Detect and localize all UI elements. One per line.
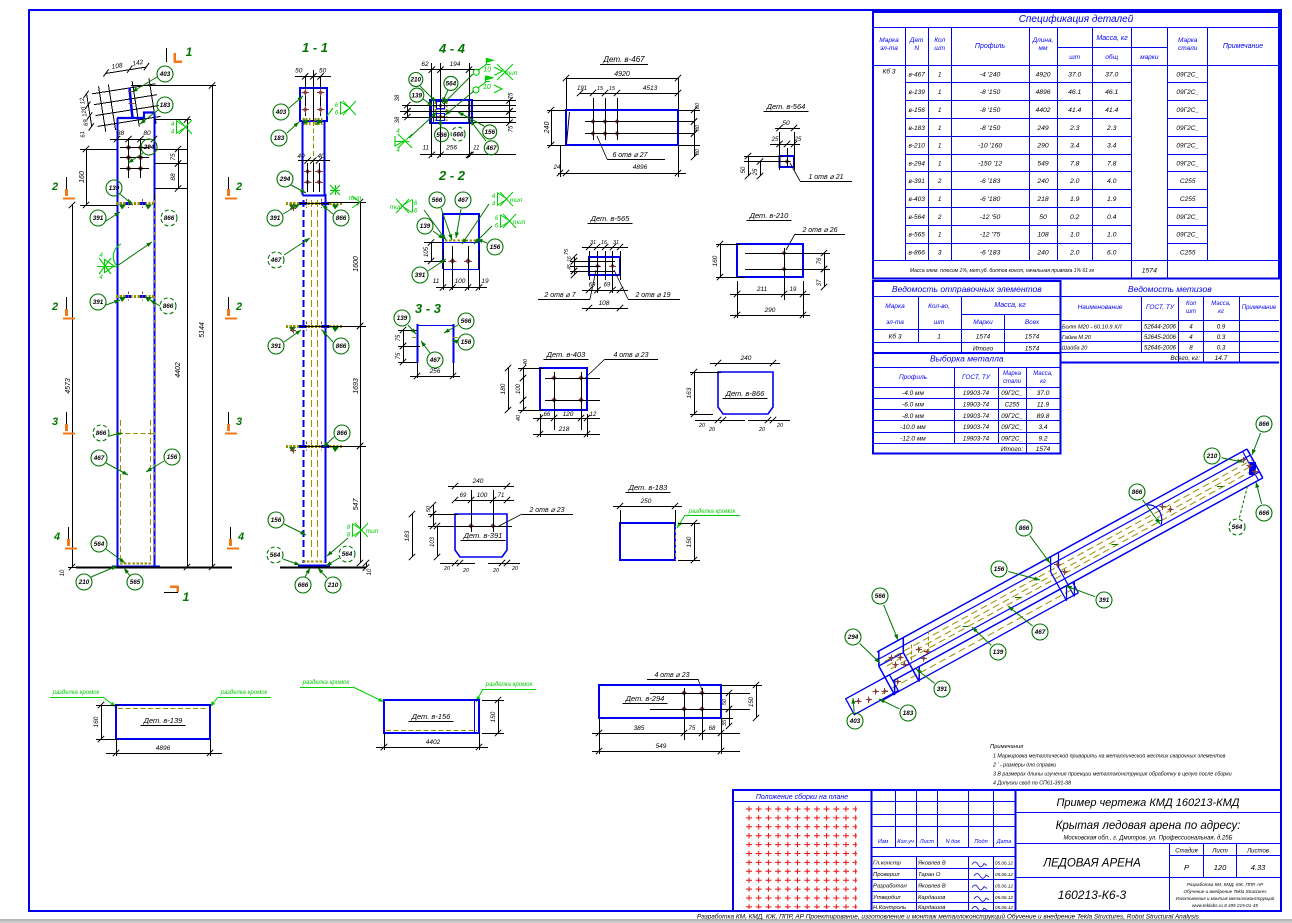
svg-text:1693: 1693 — [353, 378, 360, 394]
svg-text:09Г2С_: 09Г2С_ — [1176, 214, 1199, 221]
svg-text:52645-2006: 52645-2006 — [1144, 335, 1177, 341]
svg-text:-6 ′183: -6 ′183 — [980, 249, 1001, 256]
svg-text:50: 50 — [722, 698, 728, 705]
svg-text:3.4: 3.4 — [1107, 143, 1117, 150]
svg-text:547: 547 — [353, 498, 360, 511]
svg-text:46.1: 46.1 — [1068, 89, 1081, 96]
svg-text:20: 20 — [462, 568, 470, 574]
svg-text:Кол: Кол — [1186, 301, 1197, 307]
svg-text:05.06.12: 05.06.12 — [995, 905, 1013, 910]
svg-text:50: 50 — [1039, 214, 1047, 221]
svg-text:10: 10 — [60, 569, 66, 576]
svg-text:1: 1 — [938, 89, 942, 96]
svg-text:Профиль: Профиль — [899, 374, 928, 381]
svg-text:Изготовление и монтаж металлок: Изготовление и монтаж металлоконструкций — [1176, 896, 1275, 901]
svg-text:50: 50 — [426, 505, 432, 512]
svg-text:294: 294 — [279, 176, 291, 183]
svg-text:кг: кг — [1040, 379, 1046, 385]
svg-text:11: 11 — [473, 146, 479, 152]
svg-text:866: 866 — [164, 215, 175, 222]
svg-text:1: 1 — [938, 160, 942, 167]
svg-text:41.4: 41.4 — [1068, 107, 1081, 114]
svg-text:11.9: 11.9 — [1037, 402, 1050, 409]
svg-text:62: 62 — [421, 61, 429, 68]
svg-text:0.2: 0.2 — [1070, 214, 1080, 221]
svg-text:разделка кромок: разделка кромок — [485, 682, 534, 688]
svg-text:2.3: 2.3 — [1106, 125, 1117, 132]
svg-text:в-139: в-139 — [908, 89, 925, 96]
svg-text:6.0: 6.0 — [1107, 249, 1117, 256]
svg-text:37.0: 37.0 — [1068, 71, 1081, 78]
svg-text:1.0: 1.0 — [1070, 232, 1080, 239]
svg-text:-12.0 мм: -12.0 мм — [900, 435, 926, 442]
svg-text:-150 ′12: -150 ′12 — [978, 160, 1003, 167]
svg-text:в-866: в-866 — [908, 249, 925, 256]
svg-text:1574: 1574 — [1036, 446, 1051, 453]
svg-text:С255: С255 — [1180, 249, 1196, 256]
svg-text:80: 80 — [695, 102, 701, 109]
svg-text:19903-74: 19903-74 — [963, 402, 990, 409]
svg-text:4920: 4920 — [614, 71, 630, 78]
svg-text:Яковлев В: Яковлев В — [917, 861, 946, 867]
svg-text:20: 20 — [492, 568, 500, 574]
svg-text:в-391: в-391 — [908, 178, 925, 185]
svg-text:210: 210 — [327, 582, 339, 589]
svg-text:80: 80 — [695, 124, 701, 131]
svg-text:75: 75 — [509, 92, 515, 99]
svg-text:2 отв ⌀ 26: 2 отв ⌀ 26 — [801, 227, 837, 234]
svg-text:403: 403 — [849, 718, 861, 725]
svg-text:Профиль: Профиль — [975, 43, 1006, 50]
svg-text:0.3: 0.3 — [1217, 334, 1226, 341]
svg-text:24: 24 — [553, 165, 561, 171]
svg-text:4 отв ⌀ 23: 4 отв ⌀ 23 — [613, 352, 648, 359]
svg-text:05.06.12: 05.06.12 — [995, 872, 1013, 877]
svg-text:Пример чертежа КМД 160213-КМД: Пример чертежа КМД 160213-КМД — [1056, 797, 1239, 809]
svg-text:тип: тип — [390, 204, 403, 211]
svg-text:1: 1 — [938, 232, 942, 239]
svg-text:75: 75 — [564, 248, 570, 255]
svg-text:218: 218 — [1036, 196, 1049, 203]
svg-text:4 Допуски свод по СП61-391-98: 4 Допуски свод по СП61-391-98 — [993, 781, 1071, 787]
svg-text:в-294: в-294 — [908, 160, 925, 167]
svg-text:Утвердил: Утвердил — [872, 895, 901, 901]
svg-text:100: 100 — [455, 278, 466, 285]
svg-text:Московская обл., г. Дмитров,: Московская обл., г. Дмитров, ул. Професс… — [1063, 836, 1232, 842]
svg-text:Наименование: Наименование — [1078, 304, 1123, 311]
svg-text:68: 68 — [709, 726, 716, 732]
svg-text:Выборка металла: Выборка металла — [930, 354, 1004, 364]
svg-text:Марка: Марка — [879, 37, 899, 44]
svg-text:4: 4 — [237, 531, 244, 543]
svg-text:-6 ′183: -6 ′183 — [980, 178, 1001, 185]
svg-text:31: 31 — [613, 240, 619, 246]
svg-text:3: 3 — [938, 249, 942, 256]
svg-text:76: 76 — [817, 257, 823, 264]
svg-text:5144: 5144 — [199, 322, 206, 338]
svg-text:866: 866 — [1259, 421, 1270, 428]
svg-text:Спецификация деталей: Спецификация деталей — [1019, 13, 1134, 25]
svg-text:290: 290 — [764, 307, 776, 314]
svg-text:1: 1 — [938, 196, 942, 203]
svg-text:-6.0 мм: -6.0 мм — [902, 402, 924, 409]
svg-text:Дет: Дет — [909, 37, 924, 44]
svg-text:71: 71 — [498, 493, 505, 499]
svg-text:Лист: Лист — [1211, 849, 1227, 855]
svg-text:249: 249 — [1036, 125, 1049, 132]
svg-text:в-467: в-467 — [908, 71, 925, 78]
svg-text:разделка кромок: разделка кромок — [220, 690, 269, 696]
svg-text:183: 183 — [160, 102, 171, 109]
svg-text:46.1: 46.1 — [1105, 89, 1118, 96]
svg-text:1: 1 — [938, 71, 942, 78]
svg-text:9.2: 9.2 — [1038, 435, 1047, 442]
svg-text:09Г2С_: 09Г2С_ — [1176, 143, 1199, 150]
svg-text:183: 183 — [274, 135, 285, 142]
svg-text:Марка: Марка — [1178, 37, 1198, 44]
svg-text:Разработка КМ, КМД, КЖ, ППР, А: Разработка КМ, КМД, КЖ, ППР, АР Проектир… — [697, 913, 1200, 921]
svg-text:156: 156 — [484, 129, 495, 136]
svg-text:20: 20 — [758, 427, 766, 433]
svg-text:2 - 2: 2 - 2 — [438, 168, 466, 183]
svg-text:2.3: 2.3 — [1069, 125, 1080, 132]
svg-text:09Г2С_: 09Г2С_ — [1176, 232, 1199, 239]
svg-text:549: 549 — [1037, 160, 1049, 167]
svg-text:1 Маркировка металлической пр: 1 Маркировка металлической приварить на … — [993, 753, 1226, 760]
svg-text:05.06.12: 05.06.12 — [995, 895, 1013, 900]
svg-text:866: 866 — [1019, 525, 1030, 532]
svg-text:в-183: в-183 — [908, 125, 925, 132]
svg-text:160: 160 — [79, 171, 86, 183]
svg-text:в-210: в-210 — [908, 143, 925, 150]
svg-text:52646-2006: 52646-2006 — [1144, 346, 1177, 352]
svg-text:Гайка М 20: Гайка М 20 — [1062, 334, 1092, 341]
svg-text:Дата: Дата — [996, 839, 1012, 845]
svg-text:10: 10 — [483, 66, 491, 73]
svg-text:09Г2С_: 09Г2С_ — [1176, 89, 1199, 96]
svg-text:шт: шт — [1069, 54, 1080, 61]
svg-text:Ведомость метизов: Ведомость метизов — [1128, 284, 1212, 294]
svg-text:2: 2 — [937, 178, 942, 185]
svg-text:Масса,: Масса, — [1211, 301, 1230, 307]
svg-text:Примечания: Примечания — [990, 744, 1023, 750]
svg-text:Дет. в-467: Дет. в-467 — [602, 55, 645, 64]
svg-text:564: 564 — [1232, 524, 1243, 531]
svg-text:467: 467 — [93, 455, 105, 462]
svg-text:стали: стали — [1178, 45, 1198, 52]
svg-text:467: 467 — [270, 257, 282, 264]
svg-text:139: 139 — [109, 185, 120, 192]
svg-text:150: 150 — [749, 696, 755, 707]
svg-text:Дет. в-866: Дет. в-866 — [725, 389, 765, 398]
svg-text:391: 391 — [93, 215, 104, 222]
svg-text:75: 75 — [170, 153, 177, 161]
svg-text:156: 156 — [271, 517, 282, 524]
svg-text:09Г2С_: 09Г2С_ — [1001, 390, 1023, 397]
svg-text:Шайба 20: Шайба 20 — [1062, 345, 1088, 352]
svg-text:4896: 4896 — [633, 164, 648, 171]
svg-text:1600: 1600 — [353, 256, 360, 272]
svg-text:160: 160 — [93, 716, 100, 727]
svg-text:19: 19 — [481, 278, 489, 285]
svg-text:37: 37 — [817, 279, 823, 286]
svg-text:20: 20 — [698, 423, 706, 429]
svg-text:183: 183 — [903, 710, 914, 717]
svg-text:2 ' - размеры для справки: 2 ' - размеры для справки — [992, 763, 1056, 769]
svg-text:25: 25 — [771, 137, 779, 143]
svg-text:666: 666 — [1259, 510, 1270, 517]
svg-text:4 - 4: 4 - 4 — [438, 41, 466, 56]
svg-text:66: 66 — [544, 412, 551, 418]
svg-text:2: 2 — [235, 181, 242, 193]
svg-text:210: 210 — [78, 579, 90, 586]
svg-text:210: 210 — [410, 77, 422, 84]
svg-text:3.4: 3.4 — [1070, 143, 1080, 150]
svg-text:75: 75 — [396, 334, 402, 341]
svg-text:Дет. в-210: Дет. в-210 — [749, 211, 789, 220]
svg-text:566: 566 — [436, 132, 447, 139]
svg-text:мм: мм — [1039, 45, 1048, 52]
svg-text:866: 866 — [336, 343, 347, 350]
svg-text:4 отв ⌀ 23: 4 отв ⌀ 23 — [654, 672, 689, 679]
svg-text:1.0: 1.0 — [1107, 232, 1117, 239]
svg-text:тип: тип — [513, 219, 526, 226]
svg-text:20: 20 — [776, 423, 784, 429]
svg-text:N: N — [914, 45, 919, 52]
svg-text:Кардашов: Кардашов — [918, 895, 945, 901]
svg-text:156: 156 — [490, 244, 501, 251]
svg-text:кг: кг — [1218, 309, 1224, 315]
svg-text:866: 866 — [336, 215, 347, 222]
svg-text:2.0: 2.0 — [1069, 249, 1080, 256]
svg-text:Кол: Кол — [934, 37, 945, 44]
svg-text:2 отв ⌀ 7: 2 отв ⌀ 7 — [543, 292, 576, 299]
svg-text:шт: шт — [934, 45, 945, 52]
svg-text:С255: С255 — [1180, 196, 1196, 203]
svg-text:тип: тип — [510, 197, 523, 204]
svg-text:15: 15 — [597, 86, 604, 92]
svg-text:2 отв ⌀ 19: 2 отв ⌀ 19 — [634, 292, 670, 299]
svg-text:1: 1 — [938, 125, 942, 132]
svg-text:2: 2 — [51, 301, 58, 313]
svg-text:Болт М20 - 60.10.9 ХЛ: Болт М20 - 60.10.9 ХЛ — [1062, 325, 1122, 331]
svg-text:ЛЕДОВАЯ АРЕНА: ЛЕДОВАЯ АРЕНА — [1042, 858, 1141, 870]
svg-text:240: 240 — [1036, 178, 1049, 185]
svg-text:-8 ′150: -8 ′150 — [980, 125, 1001, 132]
svg-text:3: 3 — [52, 416, 58, 428]
svg-text:40: 40 — [523, 358, 529, 365]
svg-text:564: 564 — [446, 81, 457, 88]
svg-text:09Г2С_: 09Г2С_ — [1176, 71, 1199, 78]
svg-text:4896: 4896 — [1035, 89, 1050, 96]
svg-text:385: 385 — [634, 725, 645, 732]
svg-text:88: 88 — [117, 130, 125, 137]
svg-text:4920: 4920 — [1035, 71, 1050, 78]
svg-text:16: 16 — [601, 240, 608, 246]
svg-text:41.4: 41.4 — [1105, 107, 1118, 114]
svg-text:75: 75 — [396, 352, 402, 359]
svg-text:391: 391 — [271, 343, 282, 350]
svg-text:391: 391 — [1099, 597, 1110, 604]
svg-text:4402: 4402 — [426, 739, 441, 746]
svg-text:-12 ′50: -12 ′50 — [980, 214, 1001, 221]
svg-text:Всех: Всех — [1025, 319, 1040, 326]
svg-text:2: 2 — [235, 301, 242, 313]
svg-text:20: 20 — [511, 566, 519, 572]
svg-text:Дет. в-183: Дет. в-183 — [628, 483, 668, 492]
svg-text:Стадия: Стадия — [1175, 849, 1198, 855]
svg-text:1: 1 — [183, 590, 190, 604]
svg-text:1: 1 — [938, 107, 942, 114]
svg-text:211: 211 — [756, 286, 768, 293]
svg-text:37.0: 37.0 — [1037, 390, 1050, 397]
svg-text:50: 50 — [295, 68, 303, 75]
svg-text:05.06.12: 05.06.12 — [995, 861, 1013, 866]
svg-text:391: 391 — [937, 686, 948, 693]
svg-text:С255: С255 — [1005, 402, 1020, 409]
svg-text:1.9: 1.9 — [1070, 196, 1080, 203]
svg-text:256: 256 — [445, 145, 457, 152]
svg-text:467: 467 — [485, 145, 497, 152]
svg-text:Изм: Изм — [878, 839, 889, 845]
svg-text:50: 50 — [782, 120, 790, 127]
svg-text:-10 ′160: -10 ′160 — [978, 143, 1003, 150]
svg-text:Н.Контроль: Н.Контроль — [873, 905, 906, 911]
svg-text:разделка кромок: разделка кромок — [302, 680, 351, 686]
svg-text:-8 ′150: -8 ′150 — [980, 89, 1001, 96]
svg-text:Примечание: Примечание — [1223, 43, 1263, 50]
svg-text:139: 139 — [420, 223, 431, 230]
svg-text:09Г2С_: 09Г2С_ — [1176, 107, 1199, 114]
svg-text:-10.0 мм: -10.0 мм — [900, 424, 926, 431]
svg-text:40: 40 — [516, 414, 522, 421]
svg-text:52644-2006: 52644-2006 — [1144, 325, 1177, 331]
svg-text:69: 69 — [604, 283, 611, 289]
svg-text:3: 3 — [236, 416, 242, 428]
svg-text:50: 50 — [741, 166, 747, 173]
svg-text:45: 45 — [567, 264, 573, 270]
svg-text:15: 15 — [609, 86, 616, 92]
svg-text:Гл.констр: Гл.констр — [873, 861, 902, 867]
svg-text:139: 139 — [397, 315, 408, 322]
svg-text:7.8: 7.8 — [1107, 160, 1117, 167]
svg-text:Листов: Листов — [1246, 849, 1269, 855]
svg-text:4513: 4513 — [643, 85, 658, 92]
svg-text:139: 139 — [412, 92, 423, 99]
svg-text:-8 ′150: -8 ′150 — [980, 107, 1001, 114]
svg-text:Кол-во,: Кол-во, — [928, 303, 950, 310]
svg-text:Масса элем. плюсом 1%, мет.уб.: Масса элем. плюсом 1%, мет.уб. болтов ко… — [910, 268, 1095, 274]
svg-text:250: 250 — [640, 498, 652, 505]
svg-text:20: 20 — [443, 566, 451, 572]
svg-text:Кб 3: Кб 3 — [889, 333, 902, 341]
svg-text:Примечание: Примечание — [1242, 305, 1277, 311]
svg-text:16: 16 — [567, 256, 573, 262]
svg-text:103: 103 — [430, 536, 436, 547]
svg-text:19903-74: 19903-74 — [963, 435, 990, 442]
svg-text:Масса, кг: Масса, кг — [1096, 35, 1128, 42]
svg-text:тип: тип — [366, 528, 379, 535]
svg-text:150: 150 — [686, 536, 693, 547]
svg-text:1574: 1574 — [1025, 346, 1040, 353]
svg-text:1 отв ⌀ 21: 1 отв ⌀ 21 — [808, 174, 843, 181]
svg-text:09Г2С_: 09Г2С_ — [1001, 435, 1023, 442]
svg-text:2.0: 2.0 — [1069, 178, 1080, 185]
svg-text:0.3: 0.3 — [1217, 345, 1226, 352]
svg-text:Дет. в-564: Дет. в-564 — [766, 102, 806, 111]
svg-text:05.06.12: 05.06.12 — [995, 884, 1013, 889]
svg-text:Ведомость отправочных элементо: Ведомость отправочных элементов — [892, 284, 1042, 294]
svg-text:4573: 4573 — [65, 378, 72, 394]
svg-text:в-403: в-403 — [908, 196, 925, 203]
svg-text:эл-та: эл-та — [886, 319, 904, 326]
svg-text:160213-К6-3: 160213-К6-3 — [1058, 888, 1127, 902]
svg-text:10: 10 — [483, 84, 491, 91]
svg-text:391: 391 — [415, 272, 426, 279]
svg-text:3.4: 3.4 — [1038, 424, 1047, 431]
svg-text:общ: общ — [1105, 53, 1118, 61]
svg-text:-6 ′180: -6 ′180 — [980, 196, 1001, 203]
svg-text:ГОСТ, ТУ: ГОСТ, ТУ — [962, 374, 991, 381]
svg-text:1: 1 — [186, 45, 193, 59]
svg-text:Дет. в-391: Дет. в-391 — [463, 531, 503, 540]
svg-text:866: 866 — [96, 430, 107, 437]
svg-text:100: 100 — [516, 383, 522, 394]
svg-text:194: 194 — [450, 61, 461, 68]
svg-text:183: 183 — [404, 530, 411, 541]
svg-text:38: 38 — [395, 94, 401, 101]
svg-text:Кардашов: Кардашов — [918, 905, 945, 911]
svg-text:391: 391 — [93, 299, 104, 306]
svg-text:120: 120 — [1214, 863, 1227, 872]
svg-text:Таран О: Таран О — [918, 872, 941, 878]
svg-text:марки: марки — [1140, 54, 1159, 61]
svg-text:Кб 3: Кб 3 — [883, 68, 896, 76]
svg-text:Марка: Марка — [1003, 371, 1022, 377]
svg-text:566: 566 — [432, 197, 443, 204]
svg-text:4: 4 — [1189, 334, 1193, 341]
svg-text:0.9: 0.9 — [1217, 324, 1226, 331]
svg-text:4896: 4896 — [156, 745, 171, 752]
svg-text:2: 2 — [937, 214, 942, 221]
svg-text:С255: С255 — [1180, 178, 1196, 185]
svg-text:Дет. в-139: Дет. в-139 — [143, 716, 183, 725]
svg-text:564: 564 — [94, 541, 105, 548]
svg-text:75: 75 — [689, 726, 696, 732]
svg-text:N док: N док — [946, 839, 961, 845]
svg-text:163: 163 — [686, 387, 693, 398]
svg-text:Крытая ледовая арена по адресу: Крытая ледовая арена по адресу: — [1056, 820, 1241, 832]
svg-text:09Г2С_: 09Г2С_ — [1001, 413, 1023, 420]
svg-text:-12 ′75: -12 ′75 — [980, 232, 1001, 239]
svg-text:180: 180 — [500, 383, 507, 394]
svg-text:210: 210 — [1206, 453, 1218, 460]
svg-text:11: 11 — [423, 146, 429, 152]
svg-text:150: 150 — [490, 711, 497, 722]
svg-text:19903-74: 19903-74 — [963, 390, 990, 397]
svg-text:Итого: Итого — [973, 346, 994, 353]
svg-text:-4 ′240: -4 ′240 — [980, 71, 1001, 78]
svg-text:290: 290 — [1036, 143, 1049, 150]
svg-text:8: 8 — [1189, 345, 1193, 352]
svg-text:Дет. в-156: Дет. в-156 — [411, 712, 451, 721]
svg-text:11: 11 — [433, 278, 440, 285]
svg-text:10: 10 — [367, 568, 373, 575]
svg-text:35: 35 — [722, 719, 728, 726]
svg-text:Всего, кг:: Всего, кг: — [1170, 355, 1200, 362]
svg-text:61: 61 — [80, 130, 87, 138]
svg-text:160: 160 — [712, 255, 719, 266]
